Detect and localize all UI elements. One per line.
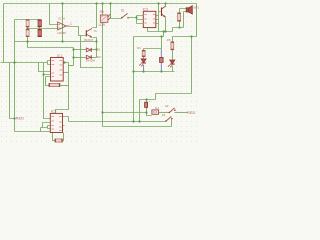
wire IC2 right out staircase	[63, 117, 69, 122]
LDR R8	[99, 10, 111, 27]
svg-text:S2: S2	[165, 104, 169, 108]
svg-text:S1: S1	[121, 9, 125, 13]
junction (146.5,99.5)	[145, 98, 147, 100]
wire IC2 right stub pins	[63, 126, 65, 130]
wire IC1 left pin3	[39, 63, 51, 72]
junction (179.5,27.5)	[178, 26, 180, 28]
svg-text:R8: R8	[100, 10, 104, 14]
wire loop left mid	[143, 57, 145, 59]
junction (62.5,3.5)	[61, 2, 63, 4]
junction (73.5,49.5)	[72, 48, 74, 50]
junction (133.5,121.5)	[132, 120, 134, 122]
svg-text:SP1: SP1	[193, 6, 199, 10]
junction (96.5,3.5)	[95, 2, 97, 4]
wire R1 bottom down	[27, 37, 29, 48]
junction (27.5,28.5)	[26, 27, 28, 29]
wire R3 top	[180, 9, 187, 14]
wire LED2 bottom	[172, 66, 174, 72]
wire x133.3 long vertical	[133, 37, 135, 122]
resistor R7 under IC1	[49, 83, 61, 87]
LED LED1	[139, 59, 146, 66]
wire right frame	[196, 4, 198, 37]
IC3 555 timer	[141, 7, 156, 27]
svg-text:RED: RED	[187, 110, 196, 115]
svg-text:LDR: LDR	[99, 23, 106, 27]
junction (158.5,3.5)	[157, 2, 159, 4]
transistor Q1	[84, 28, 97, 42]
svg-text:R5: R5	[167, 38, 171, 42]
svg-text:RED: RED	[16, 116, 25, 121]
resistor R2 lower	[38, 29, 42, 37]
wire R2 gap	[39, 27, 41, 30]
wire R1 gap	[27, 27, 29, 30]
wire y126.6 bus right	[103, 113, 172, 127]
svg-text:+: +	[149, 99, 151, 103]
wire R7 left	[46, 77, 51, 86]
wire IC1 right x68.4	[56, 63, 69, 114]
junction (143.5,71.5)	[142, 70, 144, 72]
wire y41.5	[15, 41, 97, 43]
wire S2 to RED label	[175, 112, 188, 114]
wire opamp out	[70, 27, 86, 36]
wire D2 cathode	[92, 57, 97, 59]
op-amp U1	[57, 16, 72, 34]
junction (161.5,36.5)	[160, 35, 162, 37]
wire GND bus y62	[1, 62, 48, 64]
switch S2	[165, 104, 176, 113]
wire feedback x80.2	[81, 36, 103, 68]
junction (73.5,57.5)	[72, 56, 74, 58]
wire IC3 bottom	[148, 28, 173, 32]
wire x14.5 vertical	[14, 20, 16, 132]
wire y99.4 supply	[140, 100, 156, 122]
wire divider mid y28	[28, 28, 58, 30]
wire R3 bottom	[179, 22, 181, 28]
wire R6 right	[63, 133, 64, 141]
wire diode feed x73.5	[73, 48, 75, 66]
junction (96.5,49.5)	[95, 48, 97, 50]
LED LED2	[168, 60, 175, 67]
junction (96.5,41.5)	[95, 40, 97, 42]
wire x163.4 drop	[163, 32, 165, 37]
resistor R4	[142, 50, 145, 57]
wire y121 bus	[69, 121, 166, 123]
wire y65 link	[69, 65, 74, 67]
svg-text:R4: R4	[137, 46, 141, 50]
wire D1 cathode	[92, 49, 97, 51]
wire T2 emitter	[165, 18, 167, 32]
fuse F1	[145, 99, 151, 108]
junction (102.5,3.5)	[101, 2, 103, 4]
resistor R5	[171, 42, 174, 51]
junction (133.5,71.5)	[132, 70, 134, 72]
wire R5 to LED2	[172, 50, 174, 60]
wire IC3 right bracket	[156, 4, 161, 32]
wire x9.5 to RED label	[10, 63, 15, 119]
junction (52.5,131.5)	[51, 130, 53, 132]
svg-text:T1: T1	[93, 29, 97, 33]
junction (14.5,62.5)	[13, 61, 15, 63]
wire y36.5 segment A	[134, 36, 164, 38]
wire x96.5 emitter down	[93, 38, 97, 58]
svg-text:LM358: LM358	[57, 31, 66, 35]
junction (191.5,36.5)	[190, 35, 192, 37]
resistor R1 lower	[26, 29, 29, 37]
wire left rail	[3, 4, 5, 63]
junction (161.5,71.5)	[160, 70, 162, 72]
wire y36.5 segment B	[173, 36, 197, 38]
wire speaker lower pin	[184, 12, 187, 28]
capacitor C1 blue branch	[144, 49, 164, 72]
resistor R3	[177, 13, 180, 22]
resistor R6 under IC2	[55, 139, 63, 143]
speaker SP1	[186, 6, 199, 15]
wire T2 collector	[165, 4, 167, 7]
transistor T2	[161, 6, 166, 17]
svg-text:IC1: IC1	[57, 54, 62, 58]
wire D1 anode	[74, 49, 87, 51]
wire y19.5 top	[15, 19, 40, 21]
junction (163.5,31.5)	[162, 30, 164, 32]
wire S1 to IC3	[129, 16, 141, 24]
wire IC2 gnd step	[41, 123, 51, 132]
junction (64.5,62.5)	[63, 61, 65, 63]
wire IC1 pin5	[64, 72, 69, 74]
diode D2	[86, 55, 101, 62]
wire IC2 left bracket	[48, 126, 51, 129]
junction (165.5,3.5)	[164, 2, 166, 4]
wire loop top	[144, 49, 162, 51]
wire G1 branch	[147, 100, 152, 116]
junction (110.5,3.5)	[109, 2, 111, 4]
wire R7 right	[60, 85, 69, 87]
diode D1	[86, 47, 101, 52]
wire y27.1	[173, 28, 184, 32]
junction (14.5,118.5)	[13, 117, 15, 119]
wire y47.5	[28, 47, 74, 49]
wire loop bottom rail y71.8	[134, 71, 175, 73]
wire x102.9 LDR drop	[103, 4, 147, 113]
svg-text:IC3: IC3	[143, 7, 148, 11]
junction (139.5,121.5)	[138, 120, 140, 122]
resistor R1 upper	[26, 19, 29, 27]
wire y93.4 supply	[156, 94, 192, 100]
junction (43.5,74.5)	[42, 73, 44, 75]
wire IC1 left bracket	[48, 61, 51, 65]
wire top rail	[4, 3, 197, 5]
switch S1	[121, 9, 129, 19]
svg-text:1: 1	[70, 22, 72, 26]
wire loop feed x161.3	[161, 37, 163, 49]
junction (165.5,31.5)	[164, 30, 166, 32]
svg-text:S3: S3	[162, 113, 166, 117]
junction (27.5,41.5)	[26, 40, 28, 42]
junction (102.5,112.5)	[101, 111, 103, 113]
wire D2 anode	[74, 57, 87, 59]
wire x43.1 long	[44, 63, 51, 119]
svg-text:BC547: BC547	[84, 38, 93, 42]
switch S3	[162, 113, 173, 122]
wire x191.25 down	[191, 37, 193, 94]
wire B1 to S2	[159, 112, 170, 114]
svg-text:IC1A: IC1A	[58, 16, 66, 20]
svg-text:D2: D2	[97, 55, 101, 59]
wire R5 top	[172, 37, 174, 42]
wire x110.6 switch feed	[111, 4, 122, 19]
IC1 555 timer	[51, 54, 64, 81]
resistor R2 upper	[38, 19, 42, 27]
svg-text:IC2: IC2	[51, 110, 56, 114]
junction (146.5,112.5)	[145, 111, 147, 113]
wire opamp minus from rail	[50, 4, 58, 25]
wire x96.5 collector	[93, 4, 97, 28]
svg-text:G1: G1	[155, 106, 159, 110]
junction (136.5,17.5)	[135, 16, 137, 18]
junction (62.5,41.5)	[61, 40, 63, 42]
wire y131.4 bottom bus left	[15, 131, 53, 133]
svg-text:D1: D1	[97, 47, 101, 51]
battery G1	[152, 106, 159, 114]
svg-text:1N4148: 1N4148	[86, 58, 96, 62]
wire opamp power x62	[62, 4, 64, 42]
wire R6 left	[53, 133, 56, 141]
IC2 555 timer	[50, 110, 62, 133]
